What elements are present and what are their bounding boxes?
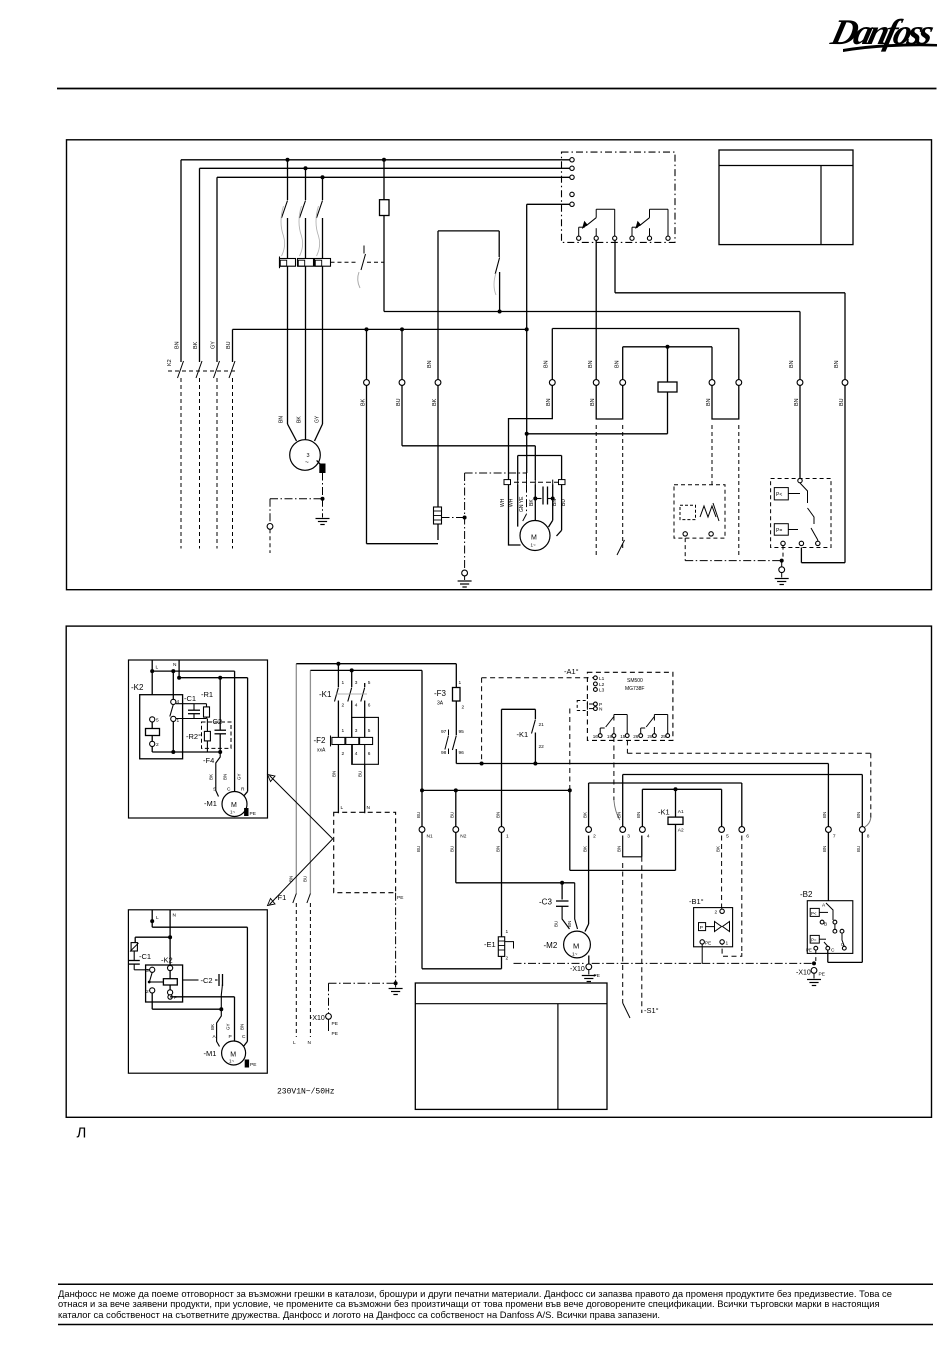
svg-text:3: 3 — [355, 680, 358, 686]
svg-text:6: 6 — [368, 703, 371, 709]
svg-text:BU: BU — [450, 812, 455, 818]
svg-text:N1: N1 — [427, 834, 433, 840]
svg-text:BN: BN — [614, 360, 620, 368]
svg-text:~: ~ — [305, 459, 309, 466]
svg-text:L3: L3 — [599, 688, 605, 694]
svg-text:B: B — [824, 922, 827, 928]
svg-text:15: 15 — [620, 734, 626, 739]
svg-text:-S1°: -S1° — [644, 1006, 659, 1015]
svg-text:2: 2 — [156, 742, 159, 748]
svg-text:-X10: -X10 — [796, 970, 811, 977]
svg-text:N: N — [173, 913, 177, 919]
svg-text:L: L — [293, 1040, 296, 1046]
svg-text:BN: BN — [822, 846, 827, 852]
svg-text:7: 7 — [833, 834, 836, 840]
svg-text:PE: PE — [705, 941, 711, 946]
svg-text:BU: BU — [561, 499, 567, 506]
svg-text:-M1: -M1 — [204, 1049, 217, 1058]
svg-text:BN: BN — [706, 398, 712, 406]
svg-text:-A1°: -A1° — [564, 667, 579, 676]
svg-text:Л: Л — [77, 1125, 87, 1142]
svg-text:S: S — [213, 787, 216, 793]
svg-text:5: 5 — [726, 834, 729, 840]
svg-text:WH: WH — [509, 498, 515, 507]
svg-text:M: M — [573, 942, 579, 951]
svg-text:P<: P< — [776, 492, 782, 498]
svg-text:BN: BN — [834, 360, 840, 368]
svg-text:L2: L2 — [599, 682, 605, 688]
svg-text:-C3: -C3 — [539, 898, 552, 907]
svg-text:-F2: -F2 — [314, 736, 327, 745]
svg-text:-K2: -K2 — [131, 683, 144, 692]
svg-text:P=: P= — [776, 528, 782, 534]
svg-text:-C1: -C1 — [139, 952, 151, 961]
svg-text:97: 97 — [441, 729, 447, 735]
svg-text:3: 3 — [355, 728, 358, 734]
svg-text:PE: PE — [250, 1062, 256, 1068]
svg-text:A2: A2 — [678, 828, 684, 834]
svg-text:2: 2 — [342, 751, 345, 757]
svg-text:98: 98 — [441, 750, 447, 756]
svg-text:-B1°: -B1° — [689, 897, 704, 906]
svg-text:BK: BK — [582, 812, 587, 818]
svg-text:-K1: -K1 — [517, 730, 529, 739]
svg-text:BN: BN — [495, 846, 500, 852]
svg-text:BU: BU — [358, 771, 363, 777]
svg-text:-M2: -M2 — [544, 941, 558, 950]
svg-text:1~: 1~ — [229, 1059, 235, 1064]
svg-text:BU: BU — [839, 398, 845, 406]
svg-text:P: P — [174, 995, 177, 1000]
svg-text:BU: BU — [303, 876, 308, 882]
svg-text:-B2: -B2 — [800, 890, 813, 899]
svg-text:3: 3 — [627, 834, 630, 840]
svg-text:-X10: -X10 — [310, 1015, 325, 1022]
svg-text:6: 6 — [368, 751, 371, 757]
svg-text:BU: BU — [416, 846, 421, 852]
svg-text:BN: BN — [822, 812, 827, 818]
svg-text:GY: GY — [211, 341, 217, 349]
svg-text:BN: BN — [332, 771, 337, 777]
svg-text:N: N — [599, 707, 603, 713]
svg-text:6: 6 — [746, 834, 749, 840]
svg-text:BK: BK — [529, 499, 535, 506]
svg-text:28: 28 — [647, 734, 653, 739]
svg-text:1: 1 — [506, 929, 509, 935]
svg-text:BK: BK — [210, 1024, 215, 1030]
svg-text:BN: BN — [427, 360, 433, 368]
svg-text:-E1: -E1 — [484, 940, 496, 949]
svg-text:BU: BU — [554, 921, 559, 927]
svg-text:4: 4 — [647, 834, 650, 840]
svg-text:-F3: -F3 — [434, 689, 447, 698]
svg-text:L: L — [156, 665, 159, 671]
svg-text:BU: BU — [450, 846, 455, 852]
svg-text:C: C — [831, 948, 835, 954]
svg-text:PE: PE — [806, 948, 812, 953]
svg-text:16: 16 — [593, 734, 599, 739]
svg-text:BN: BN — [495, 812, 500, 818]
svg-text:BK: BK — [297, 416, 303, 423]
svg-text:L1: L1 — [599, 676, 605, 682]
svg-text:A1: A1 — [678, 809, 684, 815]
svg-text:96: 96 — [459, 750, 465, 756]
svg-text:GY: GY — [226, 1023, 231, 1030]
svg-text:N: N — [173, 662, 177, 668]
svg-text:1~: 1~ — [230, 810, 236, 815]
svg-text:GY: GY — [315, 415, 321, 423]
svg-text:25: 25 — [661, 734, 667, 739]
svg-text:L: L — [156, 915, 159, 921]
svg-text:BN: BN — [636, 812, 641, 818]
svg-text:-X10: -X10 — [570, 966, 585, 973]
svg-text:BU: BU — [396, 398, 402, 406]
svg-text:1: 1 — [342, 680, 345, 686]
svg-text:M: M — [230, 1052, 236, 1059]
svg-text:230V1N~/50Hz: 230V1N~/50Hz — [277, 1088, 335, 1097]
svg-text:-F4: -F4 — [203, 756, 214, 765]
svg-text:PE: PE — [397, 895, 403, 901]
svg-text:BN: BN — [590, 398, 596, 406]
svg-text:A: A — [822, 903, 826, 909]
svg-text:BU: BU — [856, 846, 861, 852]
svg-text:22: 22 — [539, 744, 545, 750]
svg-text:5: 5 — [368, 680, 371, 686]
svg-text:1: 1 — [342, 728, 345, 734]
svg-text:-C2: -C2 — [201, 976, 213, 985]
svg-text:BN: BN — [223, 774, 228, 780]
svg-text:8: 8 — [867, 834, 870, 840]
svg-text:PE: PE — [332, 1031, 338, 1037]
svg-text:2: 2 — [593, 834, 596, 840]
svg-text:4: 4 — [355, 751, 358, 757]
svg-text:BK: BK — [360, 398, 366, 406]
svg-text:M: M — [231, 802, 237, 809]
svg-text:BN: BN — [240, 1024, 245, 1030]
svg-text:5: 5 — [156, 718, 159, 724]
svg-text:SM500: SM500 — [627, 678, 643, 684]
svg-text:BN: BN — [856, 812, 861, 818]
svg-text:2: 2 — [146, 989, 149, 995]
svg-text:BN: BN — [789, 360, 795, 368]
svg-text:1~: 1~ — [572, 952, 578, 958]
svg-text:5: 5 — [368, 728, 371, 734]
svg-text:-K1: -K1 — [319, 690, 332, 699]
svg-text:PE: PE — [819, 972, 825, 978]
svg-text:PE: PE — [250, 811, 256, 817]
svg-text:2: 2 — [715, 910, 718, 916]
svg-text:BU: BU — [226, 341, 232, 349]
svg-text:BN: BN — [279, 416, 285, 423]
svg-text:BK: BK — [582, 846, 587, 852]
svg-text:BN: BN — [588, 360, 594, 368]
svg-text:-R2°: -R2° — [186, 732, 201, 741]
svg-text:BN: BN — [175, 341, 181, 349]
svg-text:95: 95 — [459, 729, 465, 735]
svg-text:C: C — [242, 1034, 246, 1040]
svg-text:3: 3 — [146, 968, 149, 974]
svg-text:N: N — [367, 805, 371, 811]
svg-text:BK: BK — [193, 341, 199, 349]
svg-text:K2: K2 — [167, 359, 173, 366]
svg-text:BU: BU — [416, 812, 421, 818]
svg-text:WH: WH — [500, 498, 506, 507]
svg-text:BK: BK — [715, 846, 720, 852]
svg-text:xxA: xxA — [317, 748, 326, 754]
svg-text:2: 2 — [342, 703, 345, 709]
svg-text:2: 2 — [506, 956, 509, 962]
svg-text:A: A — [213, 1034, 217, 1040]
svg-text:18: 18 — [607, 734, 613, 739]
svg-text:-K1: -K1 — [658, 808, 670, 817]
svg-text:MG738F: MG738F — [625, 686, 644, 692]
svg-text:-C1: -C1 — [184, 694, 196, 703]
svg-text:P=: P= — [811, 938, 817, 943]
svg-text:2: 2 — [462, 705, 465, 711]
svg-text:PE: PE — [332, 1021, 338, 1027]
svg-text:21: 21 — [539, 722, 545, 728]
svg-text:1: 1 — [459, 680, 462, 686]
svg-text:-K2: -K2 — [161, 956, 173, 965]
svg-text:BN: BN — [544, 360, 550, 368]
svg-text:P<: P< — [811, 911, 817, 916]
svg-text:1: 1 — [506, 834, 509, 840]
svg-text:BN: BN — [794, 398, 800, 406]
svg-text:BN: BN — [552, 499, 558, 506]
svg-text:BK: BK — [432, 398, 438, 406]
svg-text:26: 26 — [633, 734, 639, 739]
svg-text:P: P — [700, 925, 703, 931]
svg-text:4: 4 — [355, 703, 358, 709]
svg-text:1: 1 — [726, 941, 729, 947]
svg-text:-R1: -R1 — [201, 690, 213, 699]
svg-text:BN: BN — [617, 846, 622, 852]
svg-text:C: C — [227, 787, 231, 793]
svg-text:GN YE: GN YE — [519, 496, 525, 512]
svg-text:N2: N2 — [460, 834, 466, 840]
svg-text:P: P — [229, 1034, 232, 1040]
svg-text:3A: 3A — [437, 701, 444, 707]
svg-text:BN: BN — [617, 812, 622, 818]
svg-text:L: L — [341, 805, 344, 811]
svg-text:1~: 1~ — [531, 543, 537, 548]
svg-text:M: M — [531, 535, 537, 542]
svg-text:R: R — [241, 787, 245, 793]
svg-text:N: N — [308, 1040, 312, 1046]
svg-text:GY: GY — [237, 773, 242, 780]
svg-text:BN: BN — [567, 921, 572, 927]
svg-text:BN: BN — [546, 398, 552, 406]
svg-text:BK: BK — [209, 774, 214, 780]
svg-text:-M1: -M1 — [204, 799, 217, 808]
